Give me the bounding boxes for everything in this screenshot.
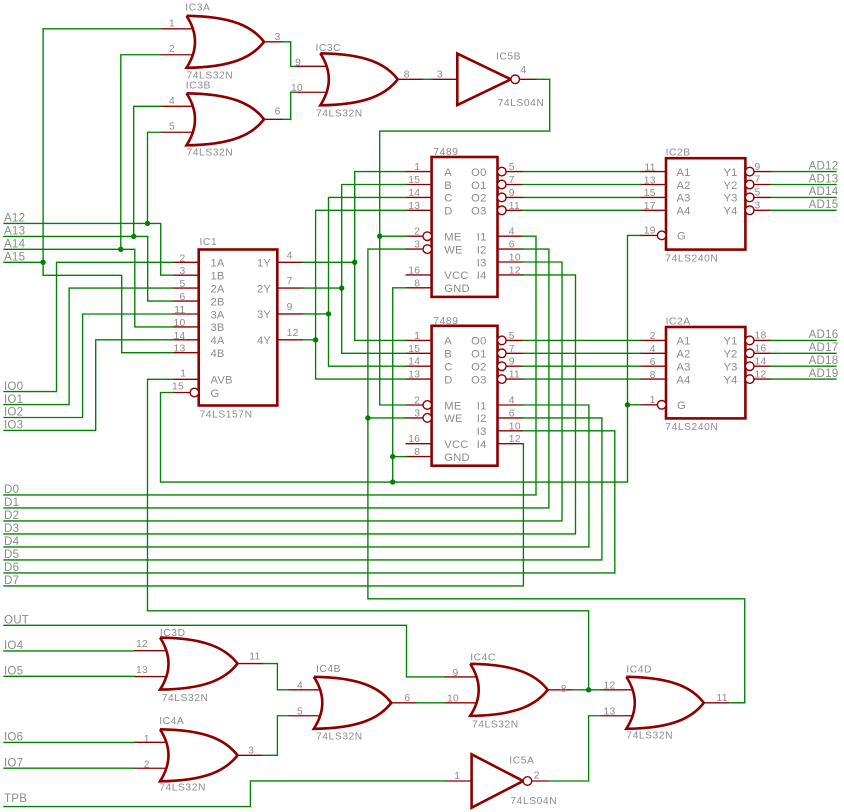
junction node MA1 <box>339 285 344 290</box>
part name IC3C <box>316 43 342 54</box>
svg-text:IO1: IO1 <box>4 393 23 406</box>
net label IO6 <box>4 731 23 744</box>
svg-text:AD16: AD16 <box>809 328 839 341</box>
svg-text:3: 3 <box>755 201 761 212</box>
svg-text:19: 19 <box>644 226 656 237</box>
value label 74LS32N <box>316 731 363 742</box>
svg-text:14: 14 <box>408 188 420 199</box>
net label AD19 <box>809 367 839 380</box>
svg-text:I4: I4 <box>477 439 487 451</box>
wire IC4C output 8 to IC4D input 12 <box>573 689 601 691</box>
svg-text:1Y: 1Y <box>257 258 271 270</box>
svg-text:7: 7 <box>509 344 515 355</box>
net label IO1 <box>4 393 23 406</box>
value label 74LS157N <box>200 410 253 421</box>
svg-text:6: 6 <box>179 292 185 303</box>
value label 74LS32N <box>159 783 206 794</box>
value label 74LS32N <box>162 693 209 704</box>
junction node MA0 <box>352 260 357 265</box>
svg-text:AD18: AD18 <box>809 354 839 367</box>
svg-text:ME: ME <box>444 232 461 244</box>
wire lower 7489 O0 to IC2A A1 <box>523 339 641 341</box>
svg-text:74LS32N: 74LS32N <box>162 693 209 704</box>
svg-text:13: 13 <box>136 665 148 676</box>
value label 74LS240N <box>665 422 718 433</box>
svg-text:5: 5 <box>509 162 515 173</box>
svg-text:3: 3 <box>179 266 185 277</box>
svg-text:AD13: AD13 <box>809 172 839 185</box>
svg-text:15: 15 <box>172 382 184 393</box>
wire net ME: IC5B output 4 to 7489 ME pins <box>380 79 550 405</box>
wire IC4A output 3 to IC4B input 5 <box>263 716 289 756</box>
junction node MA2 <box>326 311 331 316</box>
svg-text:16: 16 <box>408 265 420 276</box>
svg-text:11: 11 <box>509 370 520 381</box>
wire net A14 (label line, riser to IC3A pin 2, drop to IC1 pin 10) <box>4 55 173 327</box>
wire net AD17 <box>771 352 836 354</box>
svg-text:O2: O2 <box>471 362 486 374</box>
OR gate IC4A 74LS32N <box>135 729 263 781</box>
svg-text:I1: I1 <box>477 232 487 244</box>
svg-text:4: 4 <box>521 65 527 76</box>
svg-text:A2: A2 <box>677 180 691 192</box>
svg-text:AD14: AD14 <box>809 185 839 198</box>
svg-text:6: 6 <box>509 408 515 419</box>
OR gate IC3C 74LS32N <box>295 53 423 105</box>
svg-text:TPB: TPB <box>4 792 27 805</box>
wire net AD16 <box>771 339 836 341</box>
svg-text:13: 13 <box>408 370 420 381</box>
junction node GND at CE line <box>390 479 395 484</box>
svg-text:O1: O1 <box>471 349 486 361</box>
svg-text:4: 4 <box>509 227 515 238</box>
svg-text:AD15: AD15 <box>809 198 839 211</box>
junction node A12 <box>145 221 150 226</box>
wire net D2 to 7489 I pin <box>4 262 562 521</box>
svg-text:IC4D: IC4D <box>626 664 652 675</box>
wire net AD12 <box>771 171 836 173</box>
svg-text:AVB: AVB <box>211 375 233 387</box>
svg-text:7489: 7489 <box>433 147 458 158</box>
wire net A13 (label line, riser to IC3B pin 4, drop to IC1 pin 6) <box>4 106 173 301</box>
value label 74LS32N <box>187 147 234 158</box>
svg-text:G: G <box>677 400 686 412</box>
junction node AVB at IC4C output <box>586 687 591 692</box>
wire net IO6 to IC4A input 1 <box>4 741 135 743</box>
wire net IO1 to IC1 pin 5 <box>4 288 173 405</box>
wire net CE: IC1 G pin 15 to IC2B/IC2A G pins and 7489 GND <box>161 235 641 482</box>
svg-text:12: 12 <box>287 328 299 339</box>
wire net MA1: IC1 2Y to 7489 B pins <box>303 185 407 354</box>
svg-text:5: 5 <box>297 706 303 717</box>
svg-text:I3: I3 <box>477 257 487 269</box>
svg-text:9: 9 <box>287 302 293 313</box>
svg-text:I2: I2 <box>477 413 487 425</box>
net label IO0 <box>4 380 23 393</box>
part name IC5A <box>509 756 534 767</box>
buffer IC2B 74LS240N body and pin stubs <box>641 158 771 249</box>
svg-text:4: 4 <box>297 680 303 691</box>
svg-text:IC1: IC1 <box>200 237 218 248</box>
svg-text:1B: 1B <box>211 271 225 283</box>
buffer IC2A 74LS240N body and pin stubs <box>641 327 771 418</box>
svg-text:74LS240N: 74LS240N <box>665 422 718 433</box>
net label IO2 <box>4 406 23 419</box>
svg-text:A3: A3 <box>677 362 691 374</box>
wire upper 7489 O0 to IC2B A1 <box>523 171 641 173</box>
svg-text:74LS32N: 74LS32N <box>159 783 206 794</box>
svg-text:1: 1 <box>454 771 460 782</box>
wire net IO0 to IC1 pin 2 <box>4 262 173 391</box>
value label 74LS32N <box>472 720 519 731</box>
part name IC3A <box>185 2 210 13</box>
RAM U2 7489 (lower) body and pin stubs <box>406 326 523 466</box>
svg-text:5: 5 <box>179 279 185 290</box>
value label 74LS32N <box>316 109 363 120</box>
net label A15 <box>4 251 25 264</box>
svg-text:WE: WE <box>444 413 462 425</box>
wire net WE: 7489 WE pins to IC4D output 11 <box>368 249 745 703</box>
svg-text:7: 7 <box>509 175 515 186</box>
svg-text:IO2: IO2 <box>4 406 23 419</box>
svg-text:2A: 2A <box>211 283 225 295</box>
svg-text:2: 2 <box>169 44 175 55</box>
net label A14 <box>4 238 26 251</box>
svg-text:2: 2 <box>534 770 540 781</box>
svg-text:8: 8 <box>414 447 420 458</box>
svg-text:2: 2 <box>144 760 150 771</box>
svg-text:6: 6 <box>509 240 515 251</box>
wire IC3C output 8 to IC5B input 3 <box>423 78 432 80</box>
svg-text:Y2: Y2 <box>724 349 738 361</box>
svg-text:A1: A1 <box>677 167 691 179</box>
svg-text:4: 4 <box>509 396 515 407</box>
wire net TPB to IC5A input 1 <box>4 781 446 807</box>
svg-text:74LS240N: 74LS240N <box>665 253 718 264</box>
svg-text:Y4: Y4 <box>724 374 738 386</box>
svg-text:12: 12 <box>509 265 521 276</box>
svg-text:5: 5 <box>509 331 515 342</box>
svg-text:4B: 4B <box>211 348 225 360</box>
svg-text:74LS157N: 74LS157N <box>200 410 253 421</box>
svg-text:IC2B: IC2B <box>666 147 691 158</box>
net label D5 <box>4 548 19 561</box>
svg-text:A15: A15 <box>4 251 25 264</box>
svg-text:GND: GND <box>444 452 469 464</box>
wire net AVB: IC1 pin 1 to IC4C output / IC4D input 12 <box>148 379 589 690</box>
wire net OUT to IC4C input 9 <box>4 625 445 677</box>
wire net AD13 <box>771 184 836 186</box>
junction node WE at lower 7489 <box>365 415 370 420</box>
wire net IO2 to IC1 pin 11 <box>4 314 173 418</box>
svg-text:VCC: VCC <box>444 439 468 451</box>
svg-text:GND: GND <box>444 283 469 295</box>
svg-text:74LS32N: 74LS32N <box>472 720 519 731</box>
wire net IO3 to IC1 pin 14 <box>4 340 173 431</box>
wire net D6 to 7489 I pin <box>4 431 615 573</box>
net label AD12 <box>809 159 839 172</box>
net label TPB <box>4 792 27 805</box>
wire net AD19 <box>771 378 836 380</box>
svg-text:7: 7 <box>755 175 761 186</box>
svg-text:IC4C: IC4C <box>470 653 496 664</box>
svg-text:15: 15 <box>408 344 420 355</box>
svg-text:IC5B: IC5B <box>496 52 521 63</box>
wire net MA3: IC1 4Y to 7489 D pins <box>303 210 407 379</box>
net label AD17 <box>809 341 839 354</box>
svg-text:2: 2 <box>414 227 420 238</box>
OR gate IC3D 74LS32N <box>135 638 263 690</box>
svg-text:VCC: VCC <box>444 270 468 282</box>
wire net MA0: IC1 1Y to 7489 A pins <box>303 172 407 341</box>
svg-text:10: 10 <box>173 318 185 329</box>
pin names <box>211 167 738 464</box>
svg-text:O3: O3 <box>471 374 486 386</box>
wire IC4B output 6 to IC4C input 10 <box>417 702 445 704</box>
svg-text:IC2A: IC2A <box>666 316 691 327</box>
net label D7 <box>4 574 19 587</box>
svg-text:A4: A4 <box>677 374 691 386</box>
svg-text:9: 9 <box>295 58 301 69</box>
svg-text:8: 8 <box>404 69 410 80</box>
svg-text:OUT: OUT <box>4 614 29 627</box>
svg-text:4A: 4A <box>211 335 225 347</box>
svg-text:IO3: IO3 <box>4 419 23 432</box>
svg-text:4Y: 4Y <box>257 335 271 347</box>
svg-text:O0: O0 <box>471 336 486 348</box>
svg-text:C: C <box>444 193 452 205</box>
svg-text:I2: I2 <box>477 244 487 256</box>
svg-text:IO0: IO0 <box>4 380 23 393</box>
svg-text:3: 3 <box>414 240 420 251</box>
svg-text:2: 2 <box>179 253 185 264</box>
svg-text:8: 8 <box>650 370 656 381</box>
OR gate IC3A 74LS32N <box>161 16 283 68</box>
net label AD18 <box>809 354 839 367</box>
svg-text:IC3D: IC3D <box>160 628 186 639</box>
svg-text:B: B <box>444 180 452 192</box>
svg-text:11: 11 <box>249 652 260 663</box>
wire net A15 (label line, riser to IC3A pin 1, jog to IC1 pin 13) <box>4 29 173 353</box>
svg-text:9: 9 <box>452 668 458 679</box>
svg-text:10: 10 <box>291 83 303 94</box>
part name 7489 <box>433 147 458 158</box>
net label D2 <box>4 509 19 522</box>
net label IO3 <box>4 419 23 432</box>
value label 74LS04N <box>498 98 545 109</box>
svg-text:2B: 2B <box>211 296 225 308</box>
svg-text:2: 2 <box>650 331 656 342</box>
svg-text:10: 10 <box>509 421 521 432</box>
svg-text:5: 5 <box>169 122 175 133</box>
svg-text:12: 12 <box>755 369 767 380</box>
value label 74LS04N <box>510 796 557 807</box>
svg-text:G: G <box>211 388 220 400</box>
net label D4 <box>4 535 20 548</box>
svg-text:Y1: Y1 <box>724 167 738 179</box>
svg-text:D0: D0 <box>4 483 19 496</box>
svg-text:15: 15 <box>644 188 656 199</box>
value label 74LS32N <box>626 731 673 742</box>
svg-text:17: 17 <box>644 201 656 212</box>
svg-text:8: 8 <box>414 278 420 289</box>
svg-text:AD19: AD19 <box>809 367 839 380</box>
svg-text:16: 16 <box>408 434 420 445</box>
svg-text:7: 7 <box>287 276 293 287</box>
svg-text:7489: 7489 <box>433 316 458 327</box>
svg-text:11: 11 <box>509 201 520 212</box>
svg-text:74LS04N: 74LS04N <box>510 796 557 807</box>
svg-text:Y4: Y4 <box>724 206 738 218</box>
svg-text:1A: 1A <box>211 258 225 270</box>
svg-text:5: 5 <box>755 188 761 199</box>
junction node ME at upper 7489 <box>377 234 382 239</box>
wire upper 7489 O1 to IC2B A2 <box>523 184 641 186</box>
svg-text:15: 15 <box>408 175 420 186</box>
svg-text:3Y: 3Y <box>257 309 271 321</box>
net label D6 <box>4 561 19 574</box>
svg-text:1: 1 <box>180 368 186 379</box>
svg-text:IC5A: IC5A <box>509 756 534 767</box>
wire net IO7 to IC4A input 2 <box>4 767 135 769</box>
svg-text:11: 11 <box>174 305 185 316</box>
svg-text:74LS32N: 74LS32N <box>187 71 234 82</box>
svg-text:WE: WE <box>444 244 462 256</box>
svg-text:IC3A: IC3A <box>185 2 210 13</box>
junction node A14 <box>118 247 123 252</box>
svg-text:D3: D3 <box>4 522 19 535</box>
svg-text:3: 3 <box>248 746 254 757</box>
svg-text:D: D <box>444 374 452 386</box>
OR gate IC4D 74LS32N <box>601 677 729 729</box>
net label IO4 <box>4 639 24 652</box>
svg-text:Y1: Y1 <box>724 336 738 348</box>
wire IC3A output 3 to IC3C input 9 <box>283 42 295 67</box>
svg-text:1: 1 <box>650 395 656 406</box>
svg-text:74LS32N: 74LS32N <box>626 731 673 742</box>
svg-text:3: 3 <box>414 408 420 419</box>
wire net AD15 <box>771 209 836 211</box>
OR gate IC4C 74LS32N <box>445 664 573 716</box>
svg-text:O2: O2 <box>471 193 486 205</box>
svg-text:D7: D7 <box>4 574 19 587</box>
svg-text:O1: O1 <box>471 180 486 192</box>
svg-text:Y3: Y3 <box>724 362 738 374</box>
net label IO5 <box>4 665 23 678</box>
wire net AD14 <box>771 196 836 198</box>
part name 7489 <box>433 316 458 327</box>
svg-text:D: D <box>444 206 452 218</box>
svg-text:I1: I1 <box>477 400 487 412</box>
svg-text:O0: O0 <box>471 167 486 179</box>
wire net D1 to 7489 I pin <box>4 249 549 508</box>
part name IC1 <box>200 237 218 248</box>
svg-text:A1: A1 <box>677 336 691 348</box>
svg-text:G: G <box>677 231 686 243</box>
junction node A13 <box>131 234 136 239</box>
net label AD14 <box>809 185 839 198</box>
wire net D3 to 7489 I pin <box>4 275 576 534</box>
part name IC4B <box>316 664 341 675</box>
svg-text:9: 9 <box>509 357 515 368</box>
svg-text:1: 1 <box>144 734 150 745</box>
svg-text:A2: A2 <box>677 349 691 361</box>
wire net GND chain of 7489s <box>393 288 407 482</box>
svg-text:16: 16 <box>755 344 767 355</box>
wire IC5A output 2 to IC4D input 13 <box>549 716 601 781</box>
svg-text:I3: I3 <box>477 426 487 438</box>
svg-text:14: 14 <box>408 357 420 368</box>
svg-text:11: 11 <box>717 693 728 704</box>
wire net MA2: IC1 3Y to 7489 C pins <box>303 197 407 366</box>
part name IC4A <box>159 716 184 727</box>
wire lower 7489 O1 to IC2A A2 <box>523 352 641 354</box>
part name IC4C <box>470 653 496 664</box>
svg-text:B: B <box>444 349 452 361</box>
svg-text:IC4B: IC4B <box>316 664 341 675</box>
value label 74LS240N <box>665 253 718 264</box>
svg-text:10: 10 <box>509 253 521 264</box>
svg-text:18: 18 <box>755 331 767 342</box>
svg-text:Y3: Y3 <box>724 193 738 205</box>
net label AD15 <box>809 198 839 211</box>
svg-text:A: A <box>444 336 452 348</box>
svg-text:74LS32N: 74LS32N <box>187 147 234 158</box>
svg-text:1: 1 <box>169 18 175 29</box>
svg-text:74LS32N: 74LS32N <box>316 109 363 120</box>
svg-text:D4: D4 <box>4 535 20 548</box>
svg-text:D2: D2 <box>4 509 19 522</box>
part name IC5B <box>496 52 521 63</box>
wire net D7 to 7489 I pin <box>4 444 523 586</box>
wire net D0 to 7489 I pin <box>4 236 536 495</box>
svg-text:I4: I4 <box>477 270 487 282</box>
wire net D4 to 7489 I pin <box>4 405 589 547</box>
svg-text:IO7: IO7 <box>4 756 23 769</box>
junction node MA3 <box>313 337 318 342</box>
svg-text:A4: A4 <box>677 206 691 218</box>
part name IC2A <box>666 316 691 327</box>
svg-text:AD17: AD17 <box>809 341 839 354</box>
RAM U1 7489 (upper) body and pin stubs <box>406 157 523 297</box>
svg-text:10: 10 <box>447 694 459 705</box>
svg-text:3A: 3A <box>211 309 225 321</box>
wire net IO4 to IC3D input 12 <box>4 650 135 652</box>
svg-text:4: 4 <box>287 250 293 261</box>
svg-text:14: 14 <box>755 356 767 367</box>
net label AD13 <box>809 172 839 185</box>
net label IO7 <box>4 756 23 769</box>
svg-text:9: 9 <box>509 188 515 199</box>
junction node A15 <box>40 260 45 265</box>
svg-text:8: 8 <box>561 684 567 695</box>
svg-text:A14: A14 <box>4 238 26 251</box>
svg-text:14: 14 <box>173 331 185 342</box>
net label D3 <box>4 522 19 535</box>
svg-text:13: 13 <box>644 175 656 186</box>
svg-text:A12: A12 <box>4 212 25 225</box>
svg-text:6: 6 <box>275 106 281 117</box>
inverter IC5B 74LS04N <box>432 54 536 105</box>
part name IC3B <box>186 81 211 92</box>
junction node GND at lower 7489 <box>390 454 395 459</box>
net label OUT <box>4 614 29 627</box>
wire IC3B output 6 to IC3C input 10 <box>283 92 295 119</box>
net label D1 <box>4 496 19 509</box>
svg-text:6: 6 <box>404 693 410 704</box>
svg-text:IO5: IO5 <box>4 665 23 678</box>
svg-text:2Y: 2Y <box>257 283 271 295</box>
